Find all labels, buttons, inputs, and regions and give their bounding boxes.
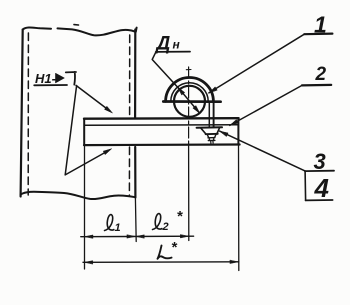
weld leader to beam top <box>76 85 110 111</box>
svg-text:1: 1 <box>314 12 327 38</box>
svg-text:н: н <box>173 38 181 52</box>
Dn diameter line <box>178 87 200 113</box>
nut left side <box>201 128 206 134</box>
bolt stub cap <box>208 138 215 141</box>
bolt tip <box>211 141 213 144</box>
svg-text:Д: Д <box>155 34 171 55</box>
svg-text:2: 2 <box>162 221 169 233</box>
dim arrow right toward column face <box>127 235 135 238</box>
bracket beam top edge <box>84 117 239 120</box>
column top break line <box>23 28 137 36</box>
label 1 underline <box>304 32 332 35</box>
column bottom break line <box>21 192 136 199</box>
weld leader arrowhead bottom <box>103 149 111 155</box>
clamp outer arc <box>166 78 214 102</box>
weld bracket mark <box>66 72 76 85</box>
svg-text:3: 3 <box>314 149 326 174</box>
dim arrow L left <box>84 261 93 264</box>
dim arrow left at 84.5 <box>85 235 94 238</box>
leader line to label 1 <box>209 34 304 93</box>
leader 2 arrowhead <box>230 120 238 126</box>
Dn leader polyline <box>152 52 179 89</box>
nut bottom line <box>206 133 218 135</box>
extension line beam right end <box>238 145 240 271</box>
Dn arrowhead lower <box>193 106 200 114</box>
dimension line l1-l2 <box>81 235 194 238</box>
labels 3-4 bracket vertical <box>304 171 307 200</box>
leader 3-4 arrowhead <box>220 131 229 136</box>
extension line pipe axis <box>188 146 190 241</box>
washer line under beam <box>197 126 222 128</box>
clamp inner arc <box>171 83 208 102</box>
bracket beam bottom edge <box>84 143 240 146</box>
svg-text:2: 2 <box>315 64 327 85</box>
break line tick <box>74 24 79 26</box>
weld flag triangle <box>56 73 65 83</box>
pipe circle <box>174 86 205 117</box>
label l1 script letter <box>105 215 114 231</box>
centerline top tick <box>186 69 191 71</box>
column right solid edge upper <box>134 30 136 119</box>
column left dashed line <box>27 33 29 195</box>
svg-text:1: 1 <box>115 222 121 234</box>
clamp chord bar <box>163 100 220 103</box>
column right dashed line lower <box>128 147 130 196</box>
leader line to label 2 <box>230 85 302 125</box>
pipe vertical centerline <box>188 67 190 146</box>
leader line to labels 3-4 <box>220 131 305 171</box>
label L script letter <box>158 246 172 259</box>
nut right side <box>217 128 220 134</box>
Dn underline <box>156 51 190 53</box>
dimension line L <box>83 261 239 264</box>
extension line left (beam left end) <box>84 146 86 269</box>
weld leader arrowhead top <box>104 106 112 113</box>
column left solid edge <box>21 30 23 197</box>
extension line column face <box>134 198 137 242</box>
weld leader V to beam bottom <box>65 86 108 175</box>
leader 1 arrowhead <box>209 87 217 93</box>
dim arrow left toward column face <box>136 235 145 238</box>
column right solid edge lower <box>134 147 136 198</box>
dim arrow L right <box>230 260 239 263</box>
labels 3-4 bracket top line <box>305 170 334 172</box>
weld label underline <box>34 84 67 86</box>
bolt stub left line <box>207 134 209 138</box>
Dn arrowhead upper <box>178 87 185 95</box>
bracket beam top inner line <box>84 124 238 127</box>
svg-text:Н1-: Н1- <box>35 71 56 86</box>
label 2 underline <box>302 84 331 87</box>
labels 3-4 bracket bottom line <box>306 199 333 201</box>
bolt stub right line <box>215 134 217 138</box>
label l2 script letter <box>153 214 162 230</box>
clamp rod right inner line <box>208 102 210 128</box>
bracket beam right end <box>237 118 239 144</box>
dim arrow right at pipe axis <box>180 235 189 238</box>
column right dashed line upper <box>129 35 131 118</box>
svg-text:4: 4 <box>314 173 330 203</box>
bracket beam left end <box>83 119 85 145</box>
clamp rod right outer line <box>213 102 215 128</box>
